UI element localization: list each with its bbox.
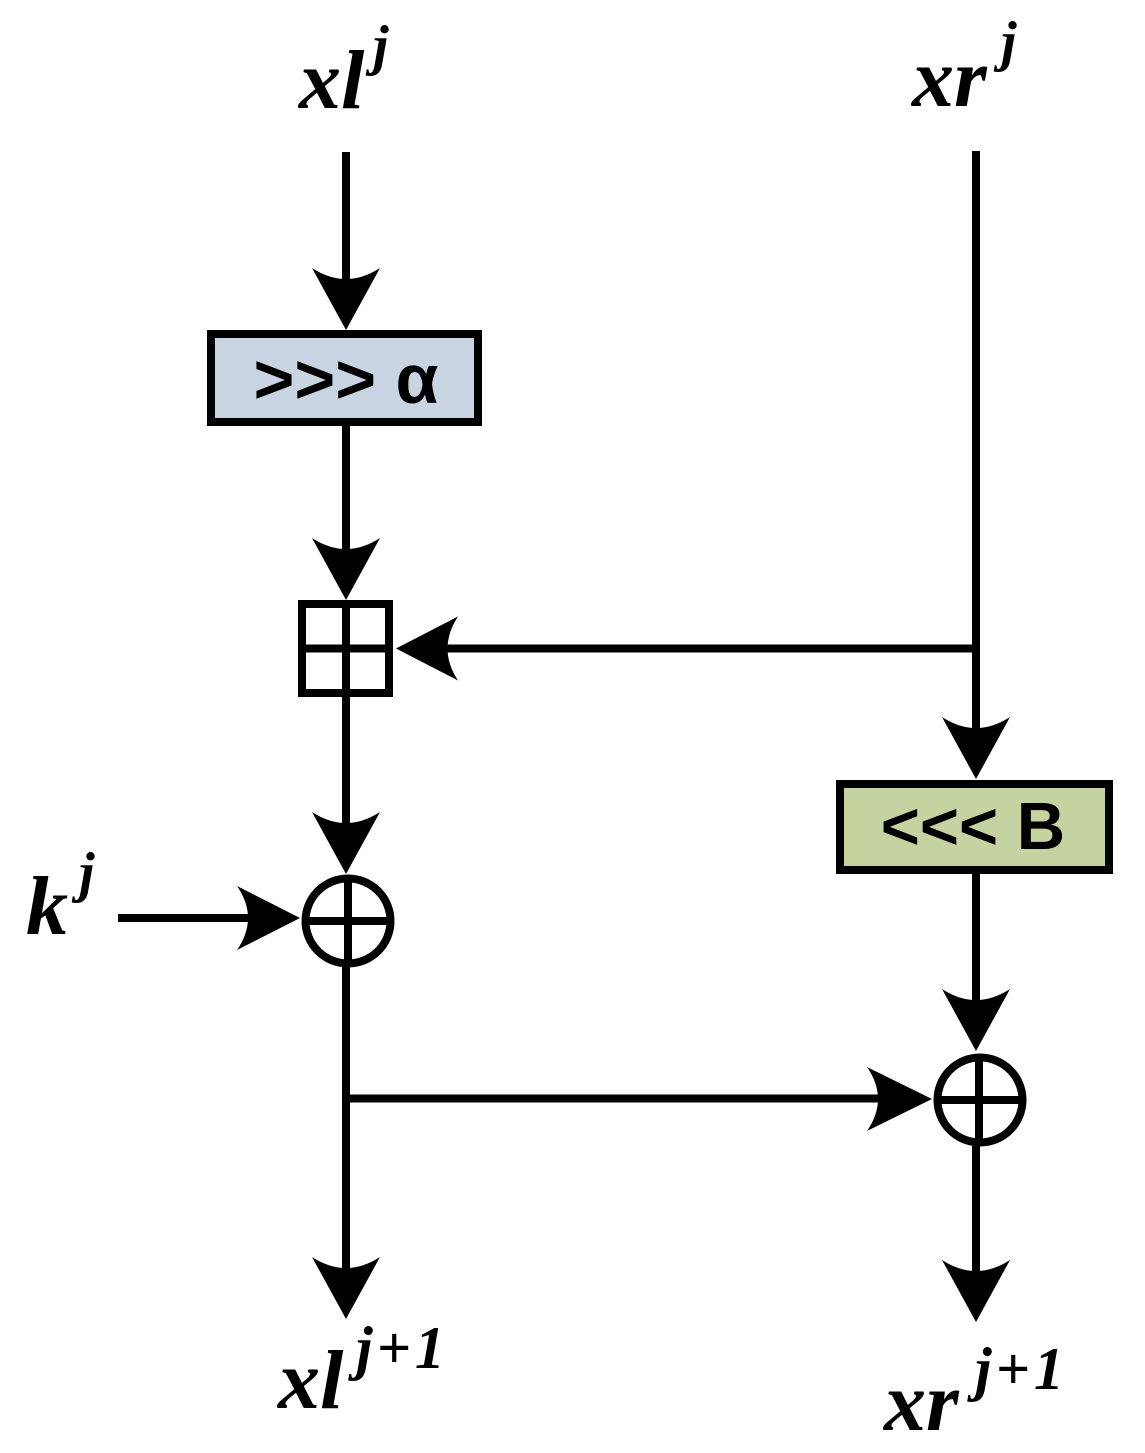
svg-text:xl: xl [276,1334,344,1427]
wire xr input [942,151,1010,779]
wire adder to left xor [312,697,380,874]
svg-text:<<< B: <<< B [881,789,1065,864]
xor right (circled plus) [935,1055,1026,1145]
wire xl input with arrowhead into rotate box [312,152,380,330]
svg-text:>>> α: >>> α [253,340,438,418]
svg-text:xr: xr [882,1356,960,1449]
wire xr to adder (horizontal with left arrowhead) [396,617,976,681]
modular adder (boxed plus) [298,600,393,697]
arrowhead xl output [312,1257,380,1319]
wire rotate box to right xor [942,874,1010,1051]
xor left (circled plus) [303,876,394,966]
label xl^j [297,15,389,127]
svg-text:k: k [26,860,68,953]
svg-text:j+1: j+1 [967,1336,1068,1402]
rotate box >>> alpha (ROTR) [211,334,478,422]
wire left xor to output with branch [342,967,350,1270]
wire rotate box to modular adder [312,426,380,600]
rotate box <<< B (ROTL) [840,784,1109,870]
wire k input with arrowhead into xor [118,886,300,950]
wire right xor to output [942,1146,1010,1322]
label k^j [26,842,95,953]
svg-text:xl: xl [297,34,365,127]
label xr^{j+1} [882,1336,1068,1449]
svg-text:xr: xr [910,32,988,125]
branch wire to right xor [346,1067,932,1131]
label xr^j [910,11,1017,125]
svg-text:j+1: j+1 [348,1315,449,1381]
label xl^{j+1} [276,1315,449,1427]
